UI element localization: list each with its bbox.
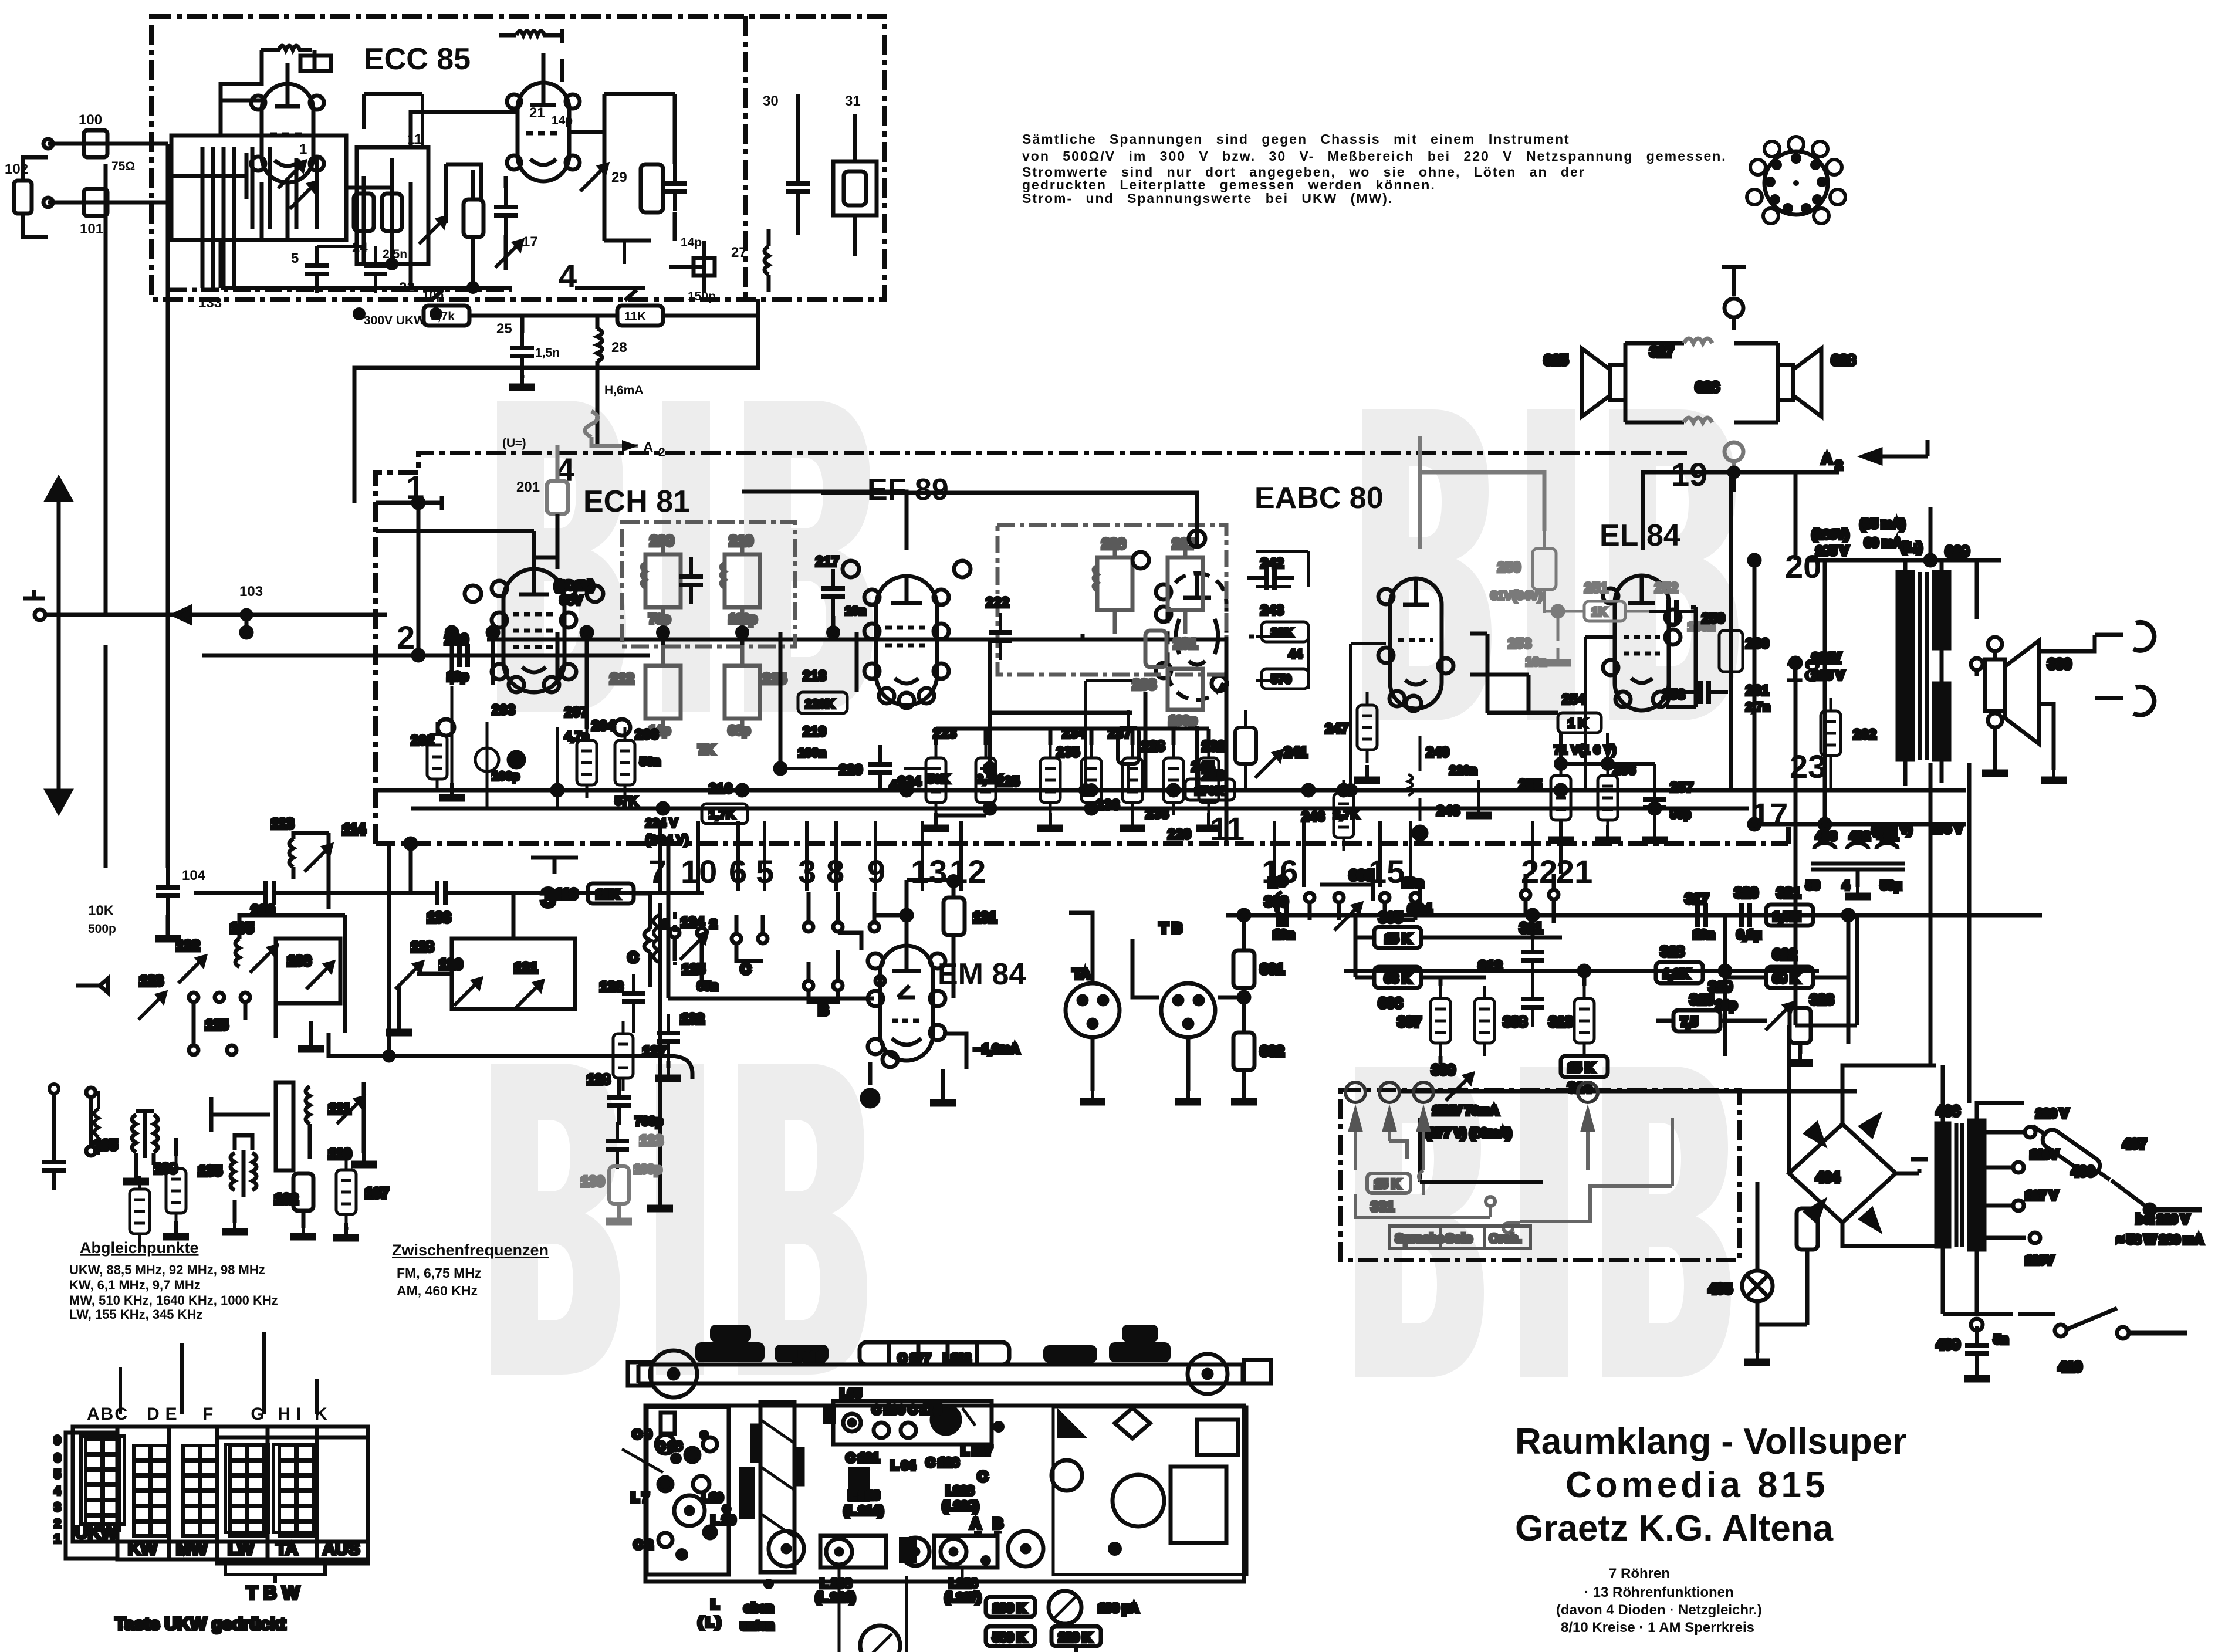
svg-text:241: 241 xyxy=(1284,744,1307,760)
svg-text:Solo: Solo xyxy=(1446,1232,1473,1245)
svg-text:H,6mA: H,6mA xyxy=(604,384,644,397)
svg-text:1: 1 xyxy=(299,141,307,157)
svg-text:T B: T B xyxy=(1159,920,1182,936)
svg-text:150p: 150p xyxy=(688,290,716,303)
svg-text:MW, 510 KHz, 1640 KHz, 10: MW, 510 KHz, 1640 KHz, 1000 KHz xyxy=(69,1293,278,1308)
svg-text:215 V: 215 V xyxy=(1812,669,1844,682)
svg-text:325: 325 xyxy=(1544,353,1568,368)
svg-text:LW, 155 KHz, 345 KHz: LW, 155 KHz, 345 KHz xyxy=(69,1307,202,1322)
svg-text:127 V: 127 V xyxy=(2026,1189,2058,1203)
svg-text:110: 110 xyxy=(329,1146,351,1162)
svg-text:30 mA: 30 mA xyxy=(1865,536,1902,550)
svg-text:(davon 4 Dioden · Netzgleichr.: (davon 4 Dioden · Netzgleichr.) xyxy=(1556,1602,1762,1618)
svg-text:(L229): (L229) xyxy=(942,1499,979,1513)
svg-text:2,7K: 2,7K xyxy=(1333,808,1359,821)
svg-text:323: 323 xyxy=(1810,992,1834,1008)
svg-text:570: 570 xyxy=(1271,673,1291,686)
svg-text:7 Röhren: 7 Röhren xyxy=(1609,1566,1670,1582)
svg-text:2: 2 xyxy=(397,619,415,656)
svg-text:103: 103 xyxy=(239,584,263,600)
svg-text:250: 250 xyxy=(1497,560,1521,576)
svg-text:EL 84: EL 84 xyxy=(1600,519,1680,553)
svg-text:7K: 7K xyxy=(698,743,714,757)
svg-text:301: 301 xyxy=(1260,962,1284,977)
svg-text:1,5n: 1,5n xyxy=(535,346,560,360)
svg-text:123: 123 xyxy=(140,973,163,989)
svg-text:119: 119 xyxy=(555,886,578,902)
svg-text:100p: 100p xyxy=(634,1163,662,1176)
svg-text:404: 404 xyxy=(1816,1170,1840,1186)
svg-text:C 126: C 126 xyxy=(926,1456,959,1470)
svg-text:5: 5 xyxy=(54,1468,61,1481)
svg-text:L 127: L 127 xyxy=(961,1444,992,1458)
svg-text:9: 9 xyxy=(54,1434,61,1447)
svg-text:232: 232 xyxy=(1202,739,1225,754)
svg-text:Raumklang - Vollsuper: Raumklang - Vollsuper xyxy=(1515,1421,1906,1462)
svg-text:ECC 85: ECC 85 xyxy=(364,42,471,76)
svg-text:125: 125 xyxy=(682,962,705,977)
svg-text:131: 131 xyxy=(973,910,996,926)
svg-text:22: 22 xyxy=(399,280,415,296)
svg-text:236: 236 xyxy=(1096,797,1120,813)
svg-text:2: 2 xyxy=(658,446,665,459)
svg-text:56n: 56n xyxy=(640,755,661,769)
svg-text:4: 4 xyxy=(559,258,577,294)
svg-text:L 7: L 7 xyxy=(631,1491,649,1505)
svg-text:109: 109 xyxy=(154,1161,177,1177)
svg-text:28: 28 xyxy=(611,340,627,356)
svg-text:136: 136 xyxy=(427,910,451,926)
svg-text:38p: 38p xyxy=(729,724,750,737)
svg-text:L: L xyxy=(711,1598,719,1612)
svg-text:307: 307 xyxy=(1398,1014,1421,1030)
svg-text:LW: LW xyxy=(228,1539,255,1559)
svg-text:1: 1 xyxy=(662,918,669,931)
svg-text:313: 313 xyxy=(1549,1014,1573,1030)
svg-text:101: 101 xyxy=(80,221,103,237)
svg-text:219: 219 xyxy=(803,724,826,740)
svg-text:65n: 65n xyxy=(697,980,718,993)
svg-text:121: 121 xyxy=(514,960,537,976)
svg-text:402: 402 xyxy=(1849,830,1870,843)
svg-text:233: 233 xyxy=(1132,677,1156,693)
svg-text:C: C xyxy=(740,962,750,977)
svg-text:61V(64V): 61V(64V) xyxy=(1490,589,1543,602)
svg-text:238: 238 xyxy=(1145,806,1169,822)
svg-text:110V: 110V xyxy=(2026,1254,2054,1267)
svg-text:3: 3 xyxy=(541,883,555,912)
svg-text:30: 30 xyxy=(763,93,779,109)
svg-text:248: 248 xyxy=(1436,803,1460,819)
svg-text:302: 302 xyxy=(1260,1044,1284,1059)
svg-text:B: B xyxy=(819,1003,829,1018)
svg-text:L05: L05 xyxy=(840,1387,862,1400)
svg-text:102: 102 xyxy=(5,161,28,177)
svg-text:322: 322 xyxy=(1773,947,1797,963)
svg-text:405: 405 xyxy=(1709,1281,1732,1297)
svg-text:254: 254 xyxy=(1562,692,1586,707)
svg-text:5: 5 xyxy=(291,250,299,266)
svg-text:KW: KW xyxy=(128,1539,158,1559)
svg-text:MW: MW xyxy=(176,1539,208,1559)
svg-text:203: 203 xyxy=(492,702,515,718)
svg-text:ECH 81: ECH 81 xyxy=(583,485,690,519)
svg-text:25: 25 xyxy=(496,321,512,337)
svg-text:27: 27 xyxy=(731,245,747,260)
svg-text:105: 105 xyxy=(230,920,253,936)
svg-text:Orch.: Orch. xyxy=(1489,1232,1521,1245)
svg-text:70p: 70p xyxy=(649,612,670,626)
svg-text:700p: 700p xyxy=(635,1115,663,1128)
svg-text:216: 216 xyxy=(709,781,732,797)
svg-text:255: 255 xyxy=(1519,777,1542,793)
svg-text:39K: 39K xyxy=(1271,626,1294,639)
svg-text:(35 mA): (35 mA) xyxy=(1860,517,1905,531)
svg-text:UKW, 88,5 MHz, 92 MHz,: UKW, 88,5 MHz, 92 MHz, 98 MHz xyxy=(69,1262,265,1277)
svg-text:204: 204 xyxy=(591,718,616,734)
svg-text:12K: 12K xyxy=(596,888,619,901)
svg-text:206: 206 xyxy=(635,727,658,743)
svg-text:TA: TA xyxy=(1073,966,1090,982)
svg-text:Sämtliche Spannungen sind: Sämtliche Spannungen sind gegen Chassis … xyxy=(1022,131,1570,147)
svg-text:318: 318 xyxy=(1661,944,1684,960)
svg-text:407: 407 xyxy=(2123,1136,2146,1152)
svg-text:306: 306 xyxy=(1379,996,1402,1011)
svg-text:260: 260 xyxy=(1746,636,1769,652)
svg-text:261: 261 xyxy=(1746,683,1769,699)
svg-text:406: 406 xyxy=(1936,1103,1960,1119)
svg-text:133: 133 xyxy=(198,295,222,311)
svg-text:100p: 100p xyxy=(729,612,757,626)
svg-text:2: 2 xyxy=(54,1517,61,1531)
svg-text:308: 308 xyxy=(1503,1014,1527,1030)
svg-text:7: 7 xyxy=(648,853,667,890)
svg-text:unten: unten xyxy=(740,1619,774,1633)
svg-text:L 20: L 20 xyxy=(711,1514,736,1527)
svg-text:8/10 Kreise · 1 AM Sperrkreis: 8/10 Kreise · 1 AM Sperrkreis xyxy=(1561,1620,1754,1636)
svg-text:249: 249 xyxy=(1426,744,1449,760)
svg-text:L 213: L 213 xyxy=(848,1489,880,1502)
svg-text:251: 251 xyxy=(1584,580,1608,596)
svg-text:4: 4 xyxy=(54,1484,61,1498)
svg-text:124: 124 xyxy=(681,915,705,930)
svg-text:17: 17 xyxy=(522,234,538,250)
svg-text:C: C xyxy=(628,950,638,966)
svg-text:--1,2mA: --1,2mA xyxy=(974,1042,1019,1056)
svg-text:A: A xyxy=(971,1516,980,1532)
svg-text:126: 126 xyxy=(600,979,623,995)
svg-text:327: 327 xyxy=(1650,344,1673,360)
svg-text:127: 127 xyxy=(643,1044,666,1059)
svg-text:ABC D E F G H I K: ABC D E F G H I K xyxy=(87,1404,329,1424)
svg-text:245: 245 xyxy=(1191,759,1215,775)
svg-text:410: 410 xyxy=(2058,1359,2082,1375)
svg-text:220K: 220K xyxy=(805,698,834,711)
svg-text:14p: 14p xyxy=(552,114,573,127)
svg-text:100p: 100p xyxy=(492,770,520,783)
svg-text:231: 231 xyxy=(1174,636,1197,652)
svg-text:2: 2 xyxy=(710,918,717,931)
svg-text:Sprache: Sprache xyxy=(1395,1232,1444,1245)
svg-text:100: 100 xyxy=(79,112,102,128)
svg-text:(280V): (280V) xyxy=(1812,528,1849,541)
svg-text:113: 113 xyxy=(271,816,294,832)
svg-text:11K: 11K xyxy=(624,310,646,323)
svg-text:57K: 57K xyxy=(615,794,638,808)
svg-text:328: 328 xyxy=(1832,353,1855,368)
svg-text:329: 329 xyxy=(1946,544,1969,560)
svg-text:50: 50 xyxy=(1806,879,1820,892)
svg-text:262: 262 xyxy=(1853,727,1876,743)
svg-text:257: 257 xyxy=(1670,780,1693,795)
svg-text:312: 312 xyxy=(1479,959,1502,974)
svg-text:3: 3 xyxy=(54,1501,61,1514)
svg-text:220 K: 220 K xyxy=(1059,1631,1091,1644)
svg-text:315: 315 xyxy=(1690,992,1713,1008)
svg-text:KW, 6,1 MHz, 9,7 MHz: KW, 6,1 MHz, 9,7 MHz xyxy=(69,1278,201,1292)
svg-text:259: 259 xyxy=(1702,611,1725,627)
svg-text:10n: 10n xyxy=(1693,928,1715,942)
svg-text:TA: TA xyxy=(276,1539,298,1559)
svg-text:14p: 14p xyxy=(681,236,702,249)
svg-text:202: 202 xyxy=(411,733,434,749)
svg-text:(L 214): (L 214) xyxy=(844,1504,883,1518)
svg-text:7,5: 7,5 xyxy=(1680,1015,1698,1029)
svg-text:C 177: C 177 xyxy=(898,1352,931,1365)
svg-text:44: 44 xyxy=(1289,648,1303,661)
svg-text:1,2K: 1,2K xyxy=(1663,967,1689,981)
svg-text:80p: 80p xyxy=(1670,808,1691,821)
svg-text:10n: 10n xyxy=(1273,928,1294,942)
svg-text:bei 220 V: bei 220 V xyxy=(2136,1213,2189,1226)
svg-text:226: 226 xyxy=(1102,536,1125,552)
svg-text:217: 217 xyxy=(816,554,839,570)
svg-text:132: 132 xyxy=(681,1011,704,1027)
svg-text:50µ: 50µ xyxy=(1881,879,1901,892)
svg-text:331: 331 xyxy=(1371,1199,1394,1215)
svg-text:330: 330 xyxy=(2048,656,2071,672)
svg-text:UKW: UKW xyxy=(75,1523,117,1542)
svg-text:33 K: 33 K xyxy=(1385,972,1411,986)
svg-text:130: 130 xyxy=(581,1174,604,1190)
svg-text:C: C xyxy=(978,1469,988,1485)
svg-text:13: 13 xyxy=(911,853,947,890)
svg-text:235: 235 xyxy=(1056,744,1080,760)
svg-text:L10: L10 xyxy=(702,1491,723,1505)
svg-text:229: 229 xyxy=(1168,827,1191,842)
svg-text:EABC 80: EABC 80 xyxy=(1254,481,1384,515)
svg-text:(U≈): (U≈) xyxy=(502,436,526,450)
svg-text:403: 403 xyxy=(1816,830,1837,843)
svg-text:222: 222 xyxy=(986,595,1009,611)
svg-text:10n: 10n xyxy=(845,604,866,618)
svg-text:10n: 10n xyxy=(1526,655,1547,669)
svg-text:128: 128 xyxy=(587,1072,610,1088)
svg-text:1K: 1K xyxy=(1591,605,1607,619)
svg-text:15 K: 15 K xyxy=(1385,932,1411,946)
svg-text:(L227): (L227) xyxy=(945,1591,981,1604)
svg-text:( L ): ( L ) xyxy=(698,1616,721,1629)
svg-text:122: 122 xyxy=(176,938,199,954)
svg-text:31: 31 xyxy=(845,93,861,109)
svg-text:C 121: C 121 xyxy=(846,1451,879,1465)
svg-text:243: 243 xyxy=(1260,602,1284,618)
svg-text:L228: L228 xyxy=(946,1484,974,1498)
svg-text:106: 106 xyxy=(288,953,311,969)
svg-text:AUS: AUS xyxy=(323,1539,360,1559)
svg-text:212: 212 xyxy=(610,671,634,687)
svg-text:A: A xyxy=(1822,451,1832,467)
svg-text:oben: oben xyxy=(744,1602,773,1615)
svg-text:21: 21 xyxy=(529,105,545,121)
svg-text:L 04: L 04 xyxy=(891,1459,915,1472)
svg-text:(1↓): (1↓) xyxy=(1901,541,1922,554)
svg-text:AM, 460 KHz: AM, 460 KHz xyxy=(397,1283,478,1298)
svg-text:von 500Ω/V im 300 V bzw. 3: von 500Ω/V im 300 V bzw. 30 V- Meßbereic… xyxy=(1022,148,1727,164)
svg-text:EM 84: EM 84 xyxy=(938,957,1026,991)
svg-text:295 V: 295 V xyxy=(1816,544,1848,558)
svg-text:1: 1 xyxy=(54,1532,61,1546)
svg-text:220 V: 220 V xyxy=(2036,1107,2068,1120)
svg-text:5n: 5n xyxy=(1994,1333,2008,1346)
svg-text:10p: 10p xyxy=(447,670,468,683)
svg-text:170K: 170K xyxy=(1195,784,1224,798)
svg-text:L 111: L 111 xyxy=(793,1350,823,1364)
svg-text:409: 409 xyxy=(1936,1337,1960,1353)
svg-text:C 9: C 9 xyxy=(633,1428,652,1441)
svg-text:309: 309 xyxy=(1432,1062,1455,1078)
svg-text:Strom- und Spannungswerte: Strom- und Spannungswerte bei UKW (MW). xyxy=(1022,191,1393,206)
svg-text:107: 107 xyxy=(365,1186,388,1201)
svg-text:1,7K: 1,7K xyxy=(709,808,735,821)
svg-text:320: 320 xyxy=(1734,885,1758,901)
svg-text:114: 114 xyxy=(343,822,366,838)
svg-text:15 K: 15 K xyxy=(1568,1061,1594,1075)
svg-text:123: 123 xyxy=(640,1133,663,1149)
svg-text:(L 210): (L 210) xyxy=(816,1591,855,1604)
svg-text:(277 V) (60mA): (277 V) (60mA) xyxy=(1426,1126,1511,1140)
svg-text:B: B xyxy=(993,1516,1003,1532)
svg-text:115: 115 xyxy=(205,1017,228,1033)
svg-text:56K: 56K xyxy=(927,773,950,786)
svg-text:C 175: C 175 xyxy=(908,1403,941,1417)
svg-text:201: 201 xyxy=(516,479,540,495)
svg-text:207: 207 xyxy=(564,705,588,720)
svg-text:100 µA: 100 µA xyxy=(1098,1602,1138,1615)
svg-text:75Ω: 75Ω xyxy=(111,160,135,173)
svg-text:C 16: C 16 xyxy=(656,1440,682,1453)
svg-text:253: 253 xyxy=(1508,636,1531,652)
svg-text:500p: 500p xyxy=(88,922,116,936)
svg-text:300V UKW: 300V UKW xyxy=(364,314,425,327)
svg-text:4: 4 xyxy=(1842,879,1849,892)
svg-text:10K: 10K xyxy=(88,903,114,919)
svg-text:6: 6 xyxy=(54,1451,61,1465)
svg-text:29: 29 xyxy=(611,170,627,185)
svg-text:L112: L112 xyxy=(944,1352,971,1365)
svg-text:230: 230 xyxy=(251,903,275,919)
svg-text:C 100: C 100 xyxy=(872,1403,905,1417)
svg-text:15 K: 15 K xyxy=(1374,1177,1400,1191)
svg-text:Graetz K.G. Altena: Graetz K.G. Altena xyxy=(1515,1508,1834,1549)
svg-text:272V 70mA: 272V 70mA xyxy=(1433,1104,1499,1118)
svg-text:252: 252 xyxy=(1655,580,1678,596)
svg-text:≈ 58 W 280 mA: ≈ 58 W 280 mA xyxy=(2117,1233,2203,1247)
svg-text:303: 303 xyxy=(1350,868,1373,883)
svg-text:100n: 100n xyxy=(798,746,826,760)
svg-text:215: 215 xyxy=(763,671,786,687)
svg-text:· 13 Röhrenfunktionen: · 13 Röhrenfunktionen xyxy=(1584,1585,1734,1600)
svg-text:560 K: 560 K xyxy=(993,1631,1026,1644)
svg-text:210: 210 xyxy=(729,533,753,549)
svg-text:135: 135 xyxy=(198,1163,222,1179)
svg-text:T Β W: T Β W xyxy=(246,1582,300,1603)
svg-text:0,1µ: 0,1µ xyxy=(1737,928,1761,942)
svg-text:258: 258 xyxy=(1662,687,1685,703)
svg-text:Zwischenfrequenzen: Zwischenfrequenzen xyxy=(392,1241,549,1259)
svg-text:220n: 220n xyxy=(1449,764,1477,777)
svg-text:326: 326 xyxy=(1696,380,1719,395)
svg-text:FM, 6,75 MHz: FM, 6,75 MHz xyxy=(397,1265,481,1281)
svg-text:104: 104 xyxy=(182,868,206,883)
svg-text:100 K: 100 K xyxy=(993,1602,1026,1615)
svg-text:247: 247 xyxy=(1325,721,1348,737)
svg-text:2,7n: 2,7n xyxy=(1746,700,1770,714)
svg-text:C 2: C 2 xyxy=(634,1538,653,1552)
svg-text:Comedia 815: Comedia 815 xyxy=(1565,1465,1829,1505)
svg-text:218: 218 xyxy=(803,668,826,684)
svg-text:98V: 98V xyxy=(560,594,582,607)
svg-text:209: 209 xyxy=(650,533,674,549)
svg-text:Taste UKW gedrückt: Taste UKW gedrückt xyxy=(115,1614,286,1634)
svg-text:118: 118 xyxy=(411,939,434,955)
svg-text:L 208: L 208 xyxy=(820,1577,852,1590)
svg-text:100p: 100p xyxy=(1169,714,1197,727)
svg-text:242: 242 xyxy=(1260,556,1284,571)
svg-text:200: 200 xyxy=(445,632,468,648)
svg-text:A: A xyxy=(643,439,653,455)
